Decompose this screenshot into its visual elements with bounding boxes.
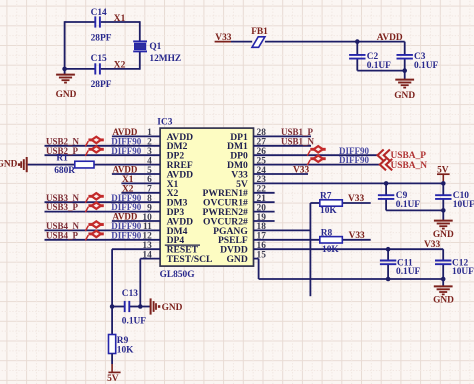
svg-text:USB4_P: USB4_P <box>46 230 79 240</box>
svg-text:5V: 5V <box>437 166 449 176</box>
svg-text:X1: X1 <box>114 14 126 24</box>
svg-text:V33: V33 <box>348 194 364 204</box>
svg-text:USB1_N: USB1_N <box>281 136 315 146</box>
svg-text:GND: GND <box>56 90 77 100</box>
svg-text:GND: GND <box>433 230 454 240</box>
svg-text:USB3_P: USB3_P <box>46 202 79 212</box>
svg-text:0.1UF: 0.1UF <box>367 61 391 71</box>
svg-text:X2: X2 <box>122 184 134 194</box>
svg-text:10UF: 10UF <box>453 200 474 210</box>
svg-text:IC3: IC3 <box>157 118 172 128</box>
svg-text:680R: 680R <box>54 166 75 176</box>
svg-text:10K: 10K <box>322 245 339 255</box>
svg-text:0.1UF: 0.1UF <box>396 200 420 210</box>
svg-text:DIFF90: DIFF90 <box>111 230 141 240</box>
svg-text:V33: V33 <box>424 240 440 250</box>
svg-text:GND: GND <box>162 303 183 313</box>
svg-text:USBA_P: USBA_P <box>391 151 427 161</box>
svg-text:V33: V33 <box>349 231 365 241</box>
svg-text:28PF: 28PF <box>91 33 112 43</box>
svg-text:10UF: 10UF <box>452 267 474 277</box>
svg-text:FB1: FB1 <box>251 27 268 37</box>
svg-text:DIFF90: DIFF90 <box>111 202 141 212</box>
svg-text:Q1: Q1 <box>149 42 161 52</box>
svg-text:AVDD: AVDD <box>113 165 138 175</box>
svg-text:GL850G: GL850G <box>160 270 196 280</box>
svg-text:X2: X2 <box>114 60 126 70</box>
svg-text:C13: C13 <box>122 289 138 299</box>
svg-text:GND: GND <box>226 254 247 265</box>
svg-text:R8: R8 <box>321 228 333 238</box>
svg-text:C15: C15 <box>91 54 107 64</box>
svg-text:GND: GND <box>0 160 18 170</box>
svg-text:V33: V33 <box>293 166 309 176</box>
svg-text:USBA_N: USBA_N <box>391 161 428 171</box>
svg-text:R7: R7 <box>320 191 332 201</box>
svg-text:R1: R1 <box>56 154 68 164</box>
svg-text:TEST/SCL: TEST/SCL <box>167 254 213 265</box>
svg-text:V33: V33 <box>215 33 231 43</box>
svg-text:DIFF90: DIFF90 <box>111 146 141 156</box>
svg-text:5V: 5V <box>107 374 119 384</box>
svg-text:C14: C14 <box>91 8 107 18</box>
svg-text:DIFF90: DIFF90 <box>339 155 369 165</box>
svg-text:GND: GND <box>433 295 454 305</box>
svg-text:12MHZ: 12MHZ <box>149 54 181 64</box>
svg-text:0.1UF: 0.1UF <box>396 267 420 277</box>
svg-text:10K: 10K <box>117 346 134 356</box>
svg-text:10K: 10K <box>320 206 337 216</box>
svg-text:0.1UF: 0.1UF <box>122 316 146 326</box>
svg-text:AVDD: AVDD <box>377 33 403 43</box>
svg-text:0.1UF: 0.1UF <box>414 61 438 71</box>
svg-text:GND: GND <box>394 91 415 101</box>
svg-text:28PF: 28PF <box>91 80 112 90</box>
